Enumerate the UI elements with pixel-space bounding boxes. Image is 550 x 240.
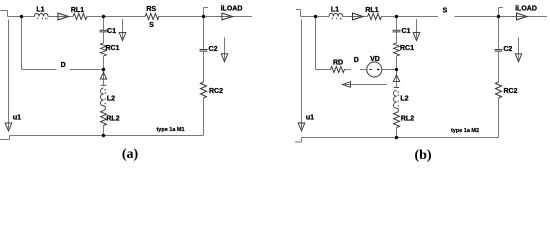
svg-text:S: S xyxy=(149,22,154,29)
svg-text:C1: C1 xyxy=(402,28,411,35)
svg-text:RL2: RL2 xyxy=(106,116,119,123)
svg-text:C2: C2 xyxy=(503,46,512,53)
svg-text:iLOAD: iLOAD xyxy=(221,6,243,13)
svg-text:L1: L1 xyxy=(36,7,44,14)
svg-text:D: D xyxy=(61,62,66,69)
svg-text:u1: u1 xyxy=(306,115,314,122)
svg-text:RS: RS xyxy=(146,6,156,13)
svg-text:L2: L2 xyxy=(400,96,408,103)
svg-text:RC1: RC1 xyxy=(105,45,119,52)
svg-text:u1: u1 xyxy=(13,115,21,122)
svg-text:(b): (b) xyxy=(414,148,431,163)
svg-text:type 1a M2: type 1a M2 xyxy=(451,128,479,134)
svg-text:(a): (a) xyxy=(122,147,139,162)
svg-text:RL1: RL1 xyxy=(71,7,84,14)
svg-text:C1: C1 xyxy=(107,28,116,35)
svg-text:RL1: RL1 xyxy=(365,7,378,14)
svg-text:L2: L2 xyxy=(107,96,115,103)
svg-text:iLOAD: iLOAD xyxy=(515,6,537,13)
svg-text:L1: L1 xyxy=(331,7,339,14)
svg-text:RL2: RL2 xyxy=(401,116,414,123)
svg-text:VD: VD xyxy=(370,56,380,63)
svg-text:C2: C2 xyxy=(209,46,218,53)
svg-text:RC2: RC2 xyxy=(503,88,517,95)
svg-text:RC2: RC2 xyxy=(209,88,223,95)
svg-text:RC1: RC1 xyxy=(400,45,414,52)
svg-text:RD: RD xyxy=(333,60,343,67)
svg-text:type 1a M1: type 1a M1 xyxy=(156,127,184,133)
svg-text:D: D xyxy=(354,57,359,64)
svg-text:S: S xyxy=(443,8,448,15)
